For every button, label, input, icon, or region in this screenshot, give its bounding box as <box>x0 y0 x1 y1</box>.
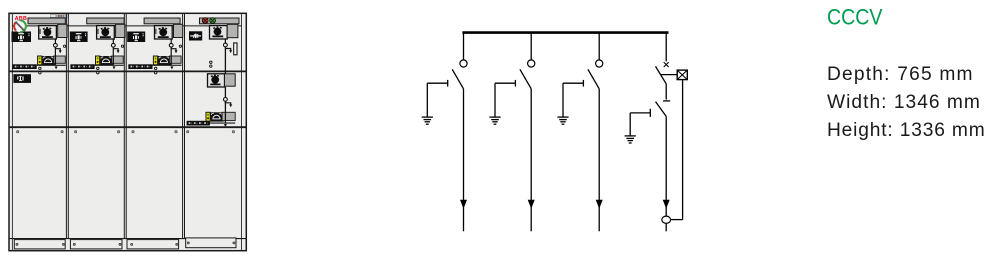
panel 1 mimic legend box <box>12 32 32 43</box>
panel 2 earthing actuator <box>100 56 112 63</box>
panel 2 instruction bar <box>87 18 124 24</box>
feeder 4 load arrow <box>663 200 670 209</box>
feeder 3 cable wire <box>598 89 600 232</box>
svg-text:CCCV: CCCV <box>827 5 883 30</box>
panel 4 mimic legend box <box>189 31 202 40</box>
feeder 4 earthing switch contact <box>630 112 650 114</box>
panel 1 interlock stripe <box>38 56 42 65</box>
panel 1 lower legend box <box>13 74 31 83</box>
panel 4 earthing actuator <box>210 112 222 120</box>
cabinet body <box>9 13 246 250</box>
panel 3 mimic riser 2 <box>170 49 172 56</box>
fuse tap wire <box>661 74 678 76</box>
panel 2 mimic line through module <box>112 56 114 65</box>
panel 4 mimic riser <box>224 39 226 43</box>
feeder 1 load arrow <box>460 200 467 209</box>
feeder 3 earthing switch contact <box>563 82 583 84</box>
feeder 1 switch blade <box>452 69 463 89</box>
cabinet left rail <box>11 13 13 250</box>
panel 4 earth contacts <box>210 61 212 63</box>
panel 1 mimic line through module <box>54 56 56 65</box>
panel 1 earthing actuator <box>42 56 54 63</box>
feeder 3 drop wire <box>598 33 600 60</box>
panel top recess line <box>12 25 241 27</box>
bottom rail <box>9 238 246 240</box>
panel 2 mimic down arrow <box>113 66 116 69</box>
panel 1 mimic riser <box>54 39 56 43</box>
panel 3 mimic switch circle <box>169 43 173 47</box>
feeder 4 earth leg wire <box>629 113 631 136</box>
feeder 4 transformer circle <box>662 216 671 223</box>
feeder 2 cable wire <box>530 89 532 232</box>
panel 1 mimic riser 2 <box>54 49 56 56</box>
compartment divider <box>9 126 246 128</box>
panel 1 mimic cable arrow <box>55 47 60 50</box>
feeder 1 switch contact circle <box>460 60 467 67</box>
fuse box <box>677 70 687 80</box>
feeder 4 drop wire <box>665 33 667 61</box>
feeder 2 ground <box>489 116 500 118</box>
panel 3 earth contacts <box>155 67 157 69</box>
certification emblem <box>14 20 26 32</box>
panel 4 interlock stripe <box>206 112 210 121</box>
panel 1 module base line <box>37 65 66 66</box>
fuse-switch cross <box>664 62 669 67</box>
panel 3 side block 2 <box>170 56 182 63</box>
panel 4 mimic arrow <box>225 47 230 51</box>
panel 2 mimic cable arrow <box>113 47 118 50</box>
red indicator lamp <box>202 18 208 24</box>
panel 3 instruction bar <box>144 18 180 24</box>
kick strip panel 4 <box>186 238 236 248</box>
feeder 3 earth leg wire <box>562 83 564 117</box>
panel 2 mimic switch circle <box>111 43 115 47</box>
feeder 4 switch blade <box>656 66 667 83</box>
panel 4 side block 2 <box>225 74 236 86</box>
panel 3 mimic riser <box>170 39 172 43</box>
fuse return wire <box>682 80 684 220</box>
panel 1 mimic switch circle <box>54 43 58 47</box>
panel 3 mimic cable arrow <box>171 47 176 50</box>
feeder 4 contact tick <box>663 100 670 102</box>
panel 3 symbol bar <box>128 64 152 69</box>
panel 4 mimic line through module <box>224 112 226 122</box>
panel 1 side block <box>58 24 67 37</box>
panel 3 mimic down arrow <box>170 66 173 69</box>
panel 2 side block 2 <box>112 56 124 63</box>
panel 4 switch-fuse actuator module <box>210 26 228 39</box>
panel 4 mimic switch circle 2 <box>224 98 228 102</box>
panel 4 side block 3 <box>222 112 235 120</box>
panel 4 side block <box>227 24 238 37</box>
feeder 2 earthing switch contact <box>495 82 515 84</box>
panel 3 side block <box>174 24 183 37</box>
kick strip screws <box>16 243 18 245</box>
feeder 4 lower blade <box>656 102 667 117</box>
panel 4 module base line <box>205 123 235 124</box>
panel 1 switch actuator module <box>39 26 57 39</box>
panel 2 mimic riser <box>112 39 114 43</box>
feeder 3 ground <box>557 116 568 118</box>
panel 3 mimic line through module <box>170 56 172 65</box>
panel 4 mimic arrow 2 <box>225 101 230 104</box>
panel 2 earth contacts <box>97 67 99 69</box>
panel 3 mimic aux circle <box>179 45 181 47</box>
panel 2 symbol bar <box>70 64 94 69</box>
svg-text:Height: 1336 mm: Height: 1336 mm <box>827 120 985 141</box>
feeder 1 drop wire <box>463 33 465 60</box>
panel 1 mimic aux circle <box>64 45 66 47</box>
panel 4 mimic riser 2 <box>224 49 226 74</box>
cabinet right rail <box>241 13 243 250</box>
feeder 3 switch contact circle <box>596 60 603 67</box>
panel divider 2 <box>123 13 125 238</box>
feeder 1 earthing switch contact <box>427 82 447 84</box>
panel 2 module base line <box>95 65 124 66</box>
panel 4 cable actuator module <box>208 74 225 87</box>
panel 4 mimic switch circle <box>224 43 228 47</box>
feeder 2 earth leg wire <box>494 83 496 117</box>
panel divider 1 <box>65 13 67 238</box>
panel 2 interlock stripe <box>96 56 100 65</box>
panel 2 mimic aux circle <box>121 45 123 47</box>
panel 3 interlock stripe <box>153 56 157 65</box>
feeder 2 switch contact circle <box>528 60 535 67</box>
cabinet top label plate <box>50 15 68 18</box>
panel 4 mimic down arrow 2 <box>224 124 227 127</box>
panel 2 mimic riser 2 <box>112 49 114 56</box>
panel divider 3 <box>182 13 184 238</box>
feeder 1 earth leg wire <box>426 83 428 117</box>
kick strip panel 2 <box>70 240 122 249</box>
panel 2 switch actuator module <box>97 26 115 39</box>
panel 2 mimic legend box <box>70 32 88 43</box>
panel 1 symbol bar <box>13 64 37 69</box>
feeder 4 cable wire <box>665 116 667 216</box>
panel 2 side block <box>116 24 125 37</box>
panel 4 mimic riser 3 <box>224 87 226 98</box>
kick strip panel 1 <box>14 240 65 249</box>
kick strip panel 3 <box>127 240 179 249</box>
panel 1 side block 2 <box>54 56 66 63</box>
panel 3 earthing actuator <box>158 56 170 63</box>
mid panel screws <box>17 131 19 133</box>
feeder 1 cable wire <box>463 89 465 232</box>
panel 4 mimic fuse <box>234 43 237 55</box>
feeder 2 drop wire <box>530 33 532 60</box>
green indicator lamp <box>210 18 216 24</box>
feeder 4 ground <box>625 135 636 137</box>
equipment bay divider <box>9 70 246 72</box>
feeder 4 switch wire <box>665 84 667 100</box>
panel 1 earth contacts <box>39 67 41 69</box>
panel 3 switch actuator module <box>155 26 173 39</box>
svg-text:Width: 1346 mm: Width: 1346 mm <box>827 92 980 113</box>
svg-text:Depth: 765 mm: Depth: 765 mm <box>827 64 973 85</box>
feeder 3 switch blade <box>588 69 599 89</box>
panel 4 symbol bar <box>187 121 210 126</box>
panel 1 mimic down arrow <box>55 66 58 69</box>
panel 4 instruction bar <box>200 18 240 24</box>
feeder 2 switch blade <box>520 69 531 89</box>
panel 3 module base line <box>152 65 181 66</box>
feeder 1 ground <box>422 116 433 118</box>
panel 4 mimic riser 4 <box>224 101 226 112</box>
panel 1 instruction bar <box>28 18 65 24</box>
panel 3 mimic legend box <box>127 32 145 43</box>
feeder 2 load arrow <box>528 200 535 209</box>
feeder 3 load arrow <box>596 200 603 209</box>
busbar <box>462 31 668 34</box>
